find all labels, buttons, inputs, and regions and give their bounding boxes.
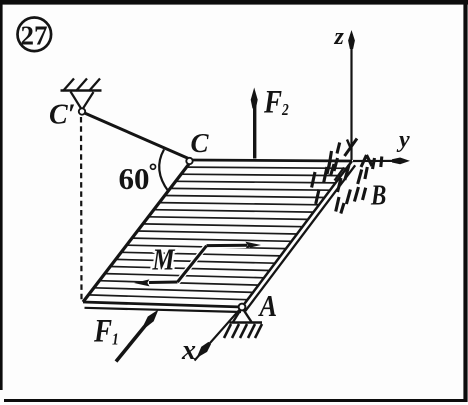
svg-text:z: z <box>334 24 345 50</box>
y axis <box>353 158 410 165</box>
pin triangle at C' <box>71 92 94 111</box>
frame left border <box>0 4 3 390</box>
svg-text:y: y <box>396 127 410 153</box>
pin support at A <box>224 308 262 339</box>
circled number 27 <box>18 18 52 52</box>
pin circle at C <box>186 158 192 164</box>
svg-text:F2: F2 <box>263 83 289 120</box>
support hatching at B <box>312 143 382 214</box>
svg-text:M: M <box>152 243 176 277</box>
frame top bar <box>0 0 468 5</box>
svg-text:B: B <box>370 179 386 211</box>
label 60deg <box>119 161 156 196</box>
60 degree arc <box>159 150 168 192</box>
svg-text:C: C <box>191 128 210 158</box>
svg-text:27: 27 <box>21 21 48 51</box>
force F1 arrow <box>116 310 159 362</box>
cable C'C <box>85 113 189 159</box>
support ceiling at C' <box>61 79 102 92</box>
plate thickness lines <box>85 165 356 312</box>
x axis <box>195 308 242 361</box>
frame bottom border <box>4 399 467 402</box>
plate hatch lines <box>89 167 347 300</box>
z axis <box>345 30 358 160</box>
pin circle at C' <box>79 108 85 114</box>
plate outline <box>83 160 352 307</box>
svg-text:60: 60 <box>119 161 150 196</box>
force F2 arrow <box>251 88 258 159</box>
svg-text:F1: F1 <box>93 312 119 349</box>
svg-text:C′: C′ <box>49 100 76 131</box>
svg-text:x: x <box>181 335 196 366</box>
frame right border <box>463 4 467 402</box>
pin circle at A <box>239 304 246 311</box>
dashed vertical line from C' to plate corner <box>80 117 83 300</box>
svg-text:A: A <box>258 289 277 323</box>
moment M stepped arrow <box>134 242 261 287</box>
